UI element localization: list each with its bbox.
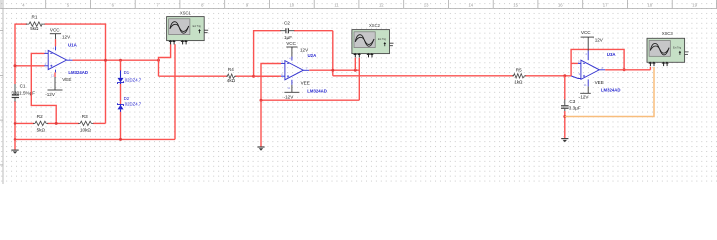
pin numbers U2A	[281, 57, 307, 90]
wire: right vertical from top wire to R3 right	[105, 24, 107, 123]
wire: non-inverting input to left branch	[15, 65, 45, 67]
label R1	[30, 14, 39, 31]
wire: C2 feedback top row right	[294, 30, 333, 32]
svg-text:U3A: U3A	[607, 52, 617, 57]
label LM324AD stage3	[601, 88, 621, 93]
oscilloscope XSC3	[647, 31, 689, 66]
node: left branch / R2 row	[14, 122, 17, 125]
svg-text:3.3µF: 3.3µF	[569, 106, 581, 111]
node: feedback / output junction	[623, 68, 626, 71]
svg-text:1kΩ: 1kΩ	[514, 79, 523, 84]
ground symbol stage1	[11, 150, 18, 154]
label R2	[37, 114, 46, 132]
op-amp U1A	[44, 46, 72, 72]
label R3	[80, 114, 91, 132]
wire: ground return row from scope	[261, 99, 359, 101]
svg-text:10: 10	[578, 60, 582, 64]
power VEE stage3	[579, 80, 604, 100]
wire: op-amp 3 output to scope A+	[605, 67, 650, 70]
svg-text:Ext Trig: Ext Trig	[673, 47, 682, 50]
label D2	[124, 96, 142, 106]
svg-text:12: 12	[379, 2, 384, 7]
wire: feedback step from inverting input to R2/R3 junction	[31, 53, 56, 123]
ruler left strip	[0, 0, 3, 184]
label U1A	[68, 43, 78, 48]
diode D2 (zener 02DZ4.7)	[118, 103, 124, 112]
svg-text:XSC1: XSC1	[180, 11, 192, 16]
power VEE stage1	[45, 72, 71, 97]
node: scope2 A+ junction	[354, 69, 357, 72]
ground symbol stage2	[257, 147, 264, 151]
power VCC stage1	[50, 28, 71, 47]
svg-text:10kΩ: 10kΩ	[80, 128, 91, 133]
svg-text:14: 14	[468, 2, 473, 7]
svg-text:1µF: 1µF	[284, 35, 292, 40]
svg-text:18: 18	[647, 2, 652, 7]
node: left branch / ground row	[14, 138, 17, 141]
resistor R2	[33, 121, 48, 125]
label R4	[227, 67, 236, 83]
capacitor C1	[12, 84, 19, 102]
capacitor C2	[280, 28, 294, 33]
label U2A	[308, 53, 318, 58]
oscilloscope XSC1	[167, 11, 209, 45]
node: C2 / input row junction	[252, 75, 255, 78]
wire: C2 left vertical to inverting input row	[253, 30, 255, 76]
svg-text:-12V: -12V	[284, 95, 295, 100]
node: output/feedback junction	[104, 59, 107, 62]
label LM324AD	[68, 70, 88, 75]
svg-text:D2: D2	[124, 96, 130, 101]
ruler numbers	[22, 2, 697, 7]
wire: row B long wire to stage 3	[333, 75, 571, 77]
label LM324AD stage2	[307, 88, 327, 93]
wire: scope2 A- ground drop	[358, 58, 360, 100]
ruler top strip	[0, 0, 717, 8]
svg-text:11: 11	[51, 73, 54, 77]
svg-text:4kΩ: 4kΩ	[227, 78, 236, 83]
power VCC stage2	[286, 41, 309, 57]
label R5	[514, 68, 523, 85]
svg-text:XSC3: XSC3	[662, 31, 674, 36]
svg-text:U1A: U1A	[68, 43, 78, 48]
svg-text:15: 15	[513, 2, 518, 7]
node: diode chain / ground row	[119, 138, 122, 141]
wire: scope A- ground return	[174, 44, 176, 139]
svg-text:VEE: VEE	[301, 81, 310, 86]
svg-text:C1: C1	[20, 83, 26, 88]
op-amp U2A	[281, 56, 309, 84]
node: junction left branch / op-amp input	[14, 64, 17, 67]
wire: input row into op-amp	[254, 75, 281, 77]
ground symbol stage3	[561, 139, 568, 143]
svg-text:12V: 12V	[300, 48, 309, 53]
svg-text:R1: R1	[32, 14, 38, 19]
svg-text:VCC: VCC	[50, 28, 60, 33]
svg-text:5kΩ: 5kΩ	[30, 26, 39, 31]
label C1	[12, 83, 36, 95]
label U3A	[607, 52, 617, 57]
capacitor C3	[561, 99, 569, 111]
node: row B / C3 junction	[563, 74, 566, 77]
wire: left branch vertical (node A down through C1)	[14, 24, 16, 140]
label C3	[569, 99, 581, 110]
label C2	[284, 20, 292, 40]
op-amp U3A	[578, 51, 605, 87]
svg-text:VEE: VEE	[595, 80, 604, 85]
node: R2/R3 feedback junction	[55, 122, 58, 125]
wire: scope2 A+	[354, 58, 356, 70]
svg-text:19: 19	[692, 2, 697, 7]
resistor R5	[512, 74, 526, 78]
svg-text:13: 13	[424, 2, 429, 7]
svg-text:R2: R2	[37, 114, 43, 119]
svg-text:12V: 12V	[62, 34, 71, 39]
wire: C2 right vertical down to output and row B	[332, 31, 334, 76]
wire orange: scope3 A- ground return	[565, 67, 654, 117]
wire: row A to R4 and stage2	[159, 75, 280, 77]
svg-text:10: 10	[289, 2, 294, 7]
svg-text:D1: D1	[124, 70, 130, 75]
svg-text:LM324AD: LM324AD	[601, 88, 621, 93]
wire: bottom row R2 R3	[15, 122, 106, 124]
resistor R4	[226, 74, 236, 78]
wire: down to ground symbol	[260, 100, 262, 146]
wire: feedback loop over the top	[571, 49, 624, 76]
svg-text:02DZ4.7: 02DZ4.7	[125, 78, 142, 83]
node: output/scope junction	[157, 59, 160, 62]
svg-text:LM324AD: LM324AD	[307, 88, 327, 93]
svg-text:Ext Trig: Ext Trig	[378, 38, 387, 41]
svg-text:11: 11	[287, 86, 290, 90]
svg-text:XSC2: XSC2	[369, 23, 381, 28]
svg-text:12V: 12V	[595, 37, 604, 42]
svg-text:VCC: VCC	[286, 41, 296, 46]
svg-text:-12V: -12V	[45, 92, 56, 97]
svg-text:R3: R3	[82, 114, 88, 119]
wire: ground bottom row	[15, 138, 175, 140]
wire: diagonal to inverting input	[571, 76, 581, 79]
svg-text:VEE: VEE	[62, 77, 71, 82]
svg-text:17: 17	[603, 2, 608, 7]
wire: ground stub	[14, 139, 16, 149]
oscilloscope XSC2	[352, 23, 394, 57]
resistor R3	[78, 121, 93, 125]
svg-text:16: 16	[558, 2, 563, 7]
svg-text:R5: R5	[516, 68, 522, 73]
svg-text:VCC: VCC	[581, 30, 591, 35]
svg-text:5kΩ: 5kΩ	[37, 128, 46, 133]
power VEE stage2	[284, 81, 310, 100]
svg-text:11: 11	[584, 83, 587, 87]
wire: C2 feedback top row left	[254, 30, 281, 32]
wire: upper input branch	[571, 62, 578, 64]
wire: diode chain verticals	[120, 60, 122, 139]
resistor R1	[26, 22, 45, 26]
svg-text:-12V: -12V	[579, 95, 590, 100]
svg-text:C3: C3	[569, 99, 575, 104]
wire: input top wire node A to R1	[15, 23, 27, 25]
svg-text:Ext Trig: Ext Trig	[193, 25, 202, 28]
wire: non-inverting input and ground drop	[261, 64, 281, 101]
node: output/diode chain junction	[119, 59, 122, 62]
node: ground return junction	[260, 99, 263, 102]
node: C2 right / output junction	[331, 69, 334, 72]
pin numbers U3A	[578, 52, 604, 87]
svg-text:C2: C2	[284, 20, 290, 25]
wire: C3 branch down	[564, 76, 566, 100]
svg-text:LM324AD: LM324AD	[68, 70, 88, 75]
wire: op-amp output row	[73, 59, 159, 61]
svg-text:11: 11	[334, 2, 339, 7]
wire: scope A+ to output	[159, 44, 171, 76]
wire: C3 to ground	[564, 111, 566, 138]
pin numbers U1A	[45, 46, 71, 77]
svg-text:02DZ4.7: 02DZ4.7	[125, 102, 142, 107]
node: C3 / orange wire junction	[563, 115, 566, 118]
label D1	[124, 70, 142, 82]
diode D1 (zener 02DZ4.7)	[118, 70, 124, 84]
wire: op-amp 2 output row	[309, 69, 359, 71]
power VCC stage3	[581, 30, 604, 51]
svg-text:R4: R4	[228, 67, 234, 72]
wire: R1 right to vertical x=105.5	[45, 23, 107, 25]
svg-text:U2A: U2A	[308, 53, 318, 58]
